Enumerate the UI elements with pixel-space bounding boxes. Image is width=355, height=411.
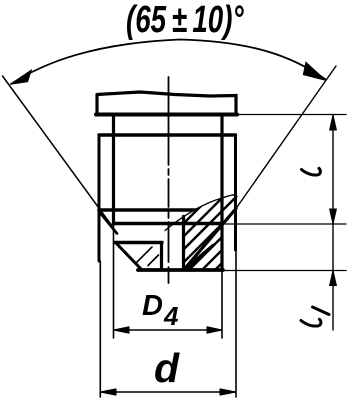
hole right wall (section side) bbox=[182, 217, 185, 270]
neck left edge / bore left wall bbox=[112, 115, 115, 224]
hatch lines in left triangle bbox=[137, 247, 159, 266]
svg-text:(65 ± 10)°: (65 ± 10)° bbox=[126, 0, 244, 41]
angle dimension arc bbox=[11, 40, 325, 85]
D4 extension line left bbox=[113, 224, 115, 339]
flange bottom line bbox=[96, 113, 237, 117]
extension line right from bottom face bbox=[223, 270, 346, 272]
arrowhead right end of arc bbox=[304, 63, 326, 81]
d extension line right bbox=[235, 250, 237, 397]
hatch lines in right section zone bbox=[120, 192, 319, 287]
center line (vertical axis, dash-dot) bbox=[168, 77, 170, 286]
arrowhead left end of arc bbox=[11, 71, 31, 85]
body left side bbox=[98, 135, 101, 261]
wire: left 65-degree construction line bbox=[3, 76, 114, 228]
D4 extension line right bbox=[221, 270, 223, 338]
arrow up from below at bottom-face extension (l1) bbox=[330, 271, 337, 286]
chamfer edge upper left bbox=[99, 212, 117, 234]
label l (rotated) bbox=[302, 168, 321, 175]
extension line right from flange bottom bbox=[237, 114, 346, 116]
d extension line left bbox=[99, 261, 101, 397]
dimension l / l1 vertical line bbox=[332, 115, 334, 330]
extension line right from line B bbox=[222, 223, 346, 225]
svg-text:d: d bbox=[154, 345, 180, 391]
arrow down at line B extension (l bottom) bbox=[330, 209, 337, 224]
bottom face line bbox=[138, 268, 223, 272]
line C (inner step) bbox=[115, 241, 163, 244]
section cone edge right (thick diagonal) bbox=[184, 209, 236, 270]
wire: right 65-degree construction line bbox=[236, 66, 336, 209]
svg-text:D4: D4 bbox=[142, 290, 179, 331]
body right side bbox=[234, 135, 237, 250]
cone edge lower left bbox=[116, 243, 142, 270]
D4 dimension line with arrows bbox=[114, 329, 223, 331]
step line A bbox=[99, 208, 196, 212]
neck right edge / bore right wall bbox=[220, 115, 223, 270]
line B (bore shoulder, D4 level) bbox=[114, 222, 223, 226]
flange outline bbox=[97, 92, 236, 115]
d dimension line with arrows bbox=[100, 391, 236, 393]
label l1 (rotated) bbox=[301, 307, 329, 326]
body top line bbox=[99, 133, 236, 136]
hole left wall bbox=[160, 243, 163, 270]
break line (freehand wavy boundary of broken-out section) bbox=[165, 195, 237, 231]
arrow up at flange bottom extension (l top) bbox=[330, 115, 337, 130]
